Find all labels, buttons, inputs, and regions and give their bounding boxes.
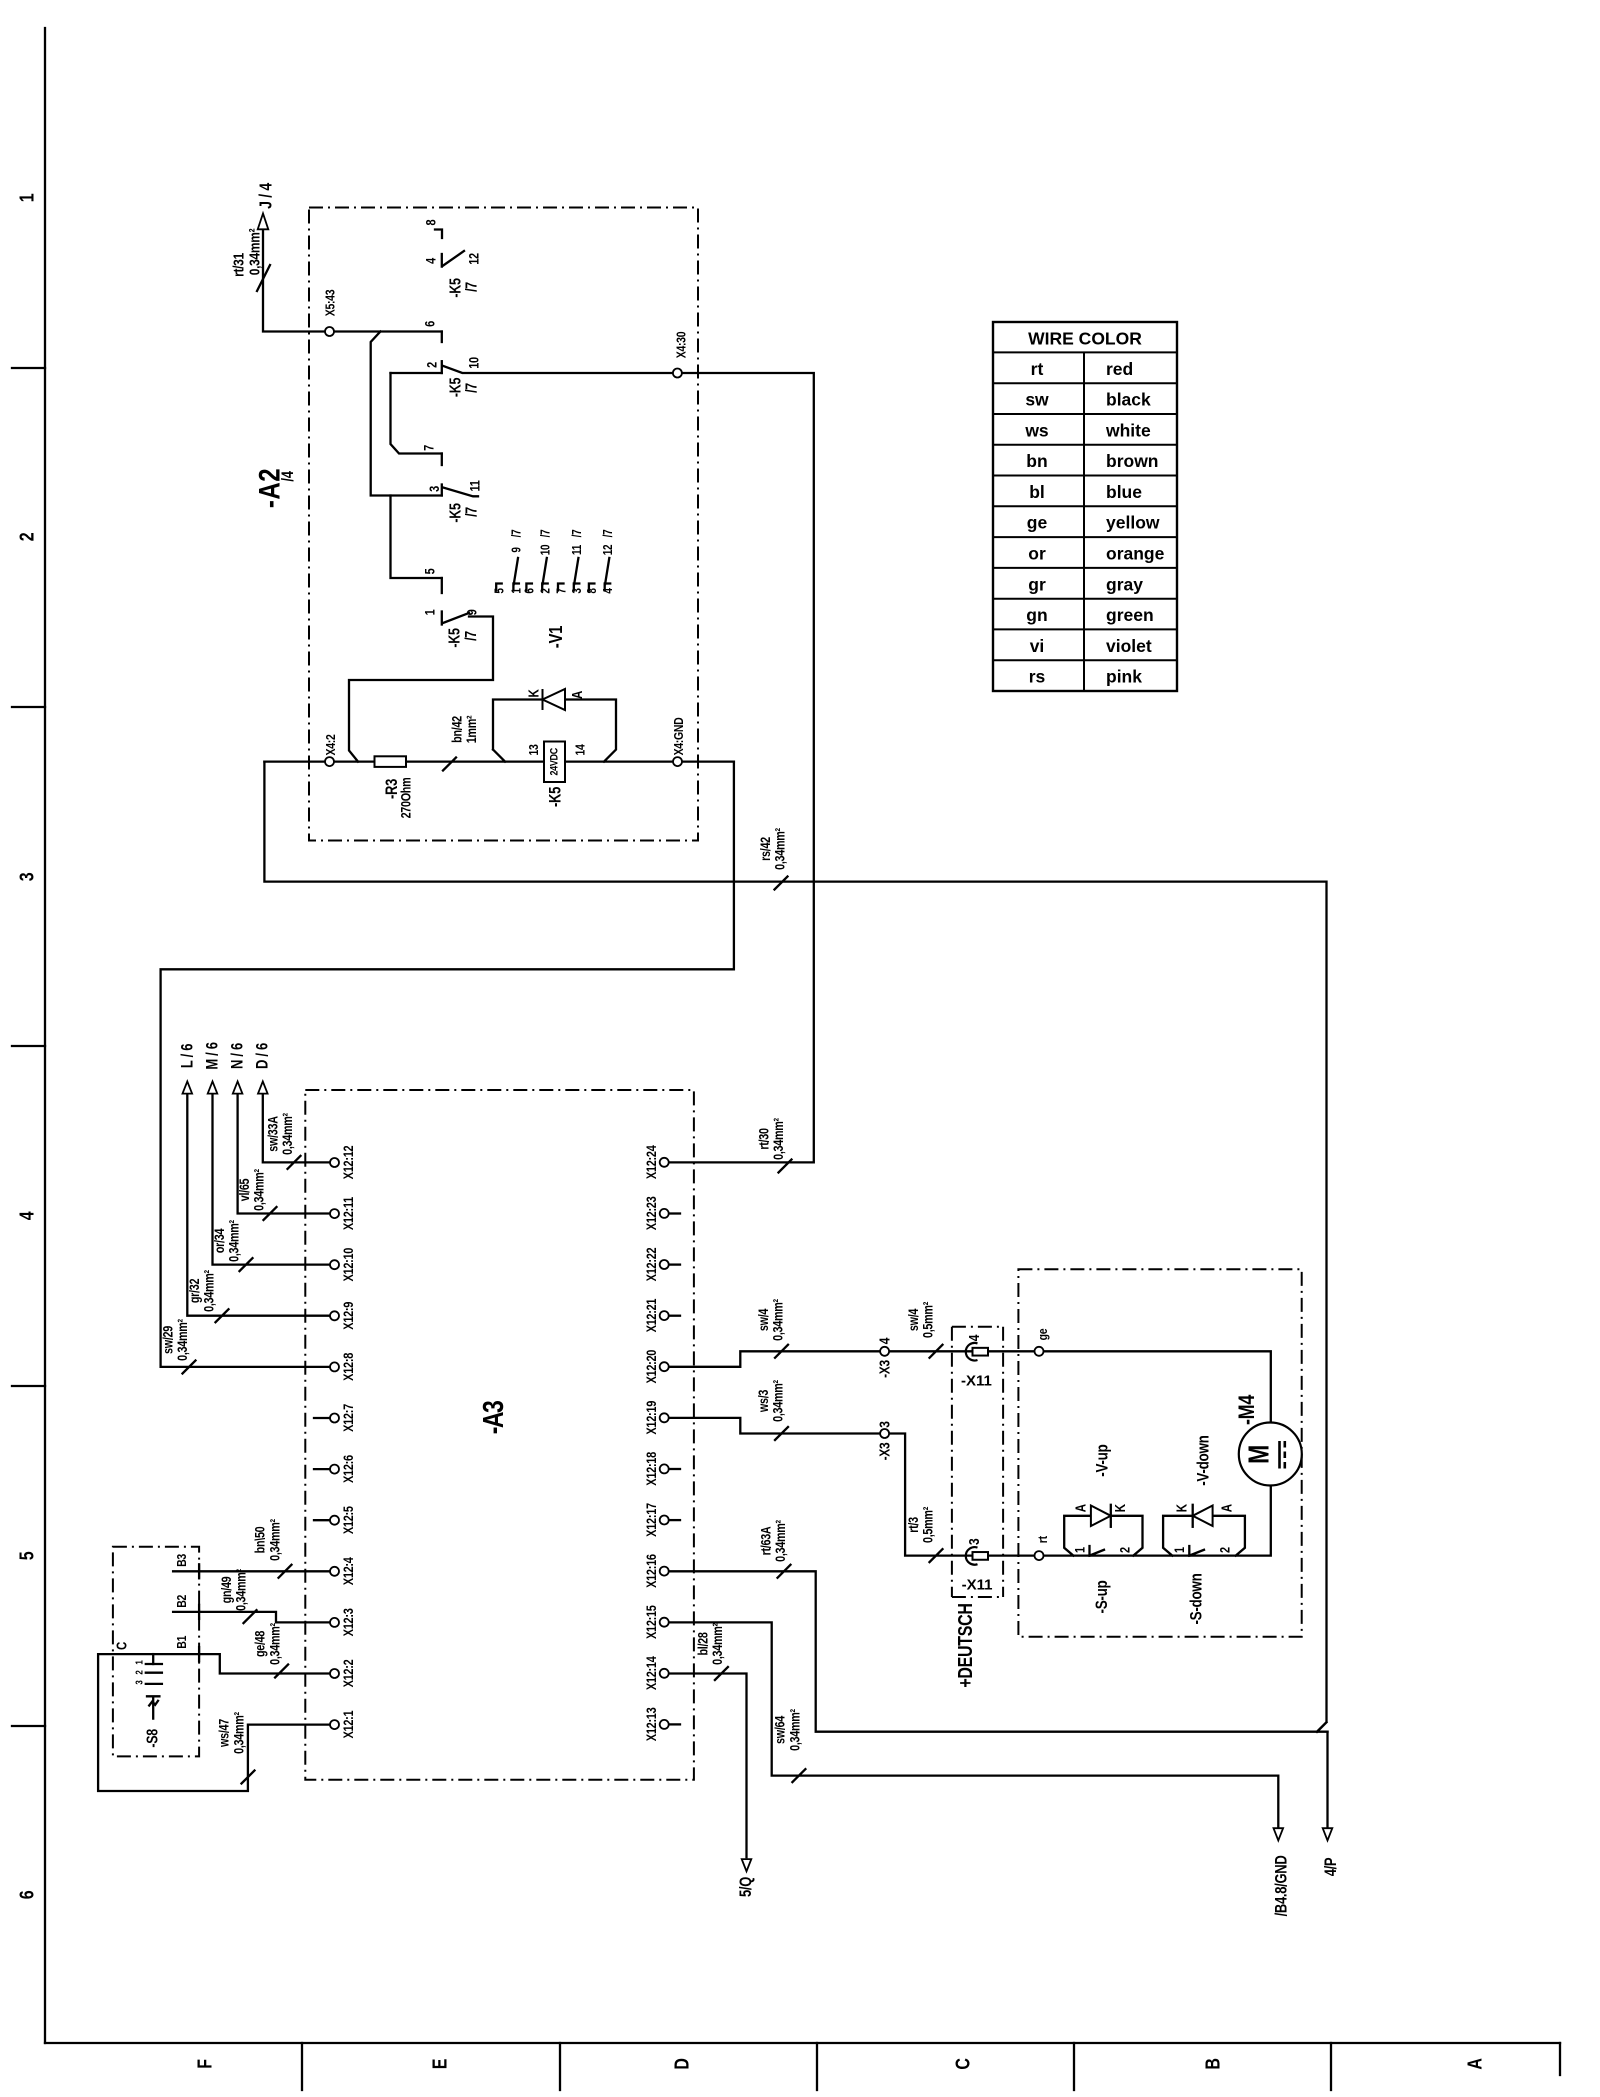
- svg-text:A: A: [1072, 1503, 1089, 1512]
- svg-text:rs/42: rs/42: [758, 837, 773, 861]
- svg-text:X12:17: X12:17: [644, 1503, 659, 1537]
- svg-text:B3: B3: [174, 1553, 189, 1566]
- svg-text:0,34mm²: 0,34mm²: [770, 1299, 785, 1341]
- svg-text:N / 6: N / 6: [229, 1043, 247, 1069]
- svg-text:1: 1: [1072, 1547, 1087, 1553]
- svg-text:2: 2: [16, 532, 38, 541]
- svg-text:8: 8: [423, 219, 438, 225]
- svg-text:X12:3: X12:3: [341, 1608, 356, 1636]
- svg-text:/7: /7: [571, 530, 584, 538]
- svg-text:0,34mm²: 0,34mm²: [267, 1519, 282, 1561]
- svg-text:X12:15: X12:15: [644, 1605, 659, 1639]
- svg-text:K: K: [525, 689, 542, 698]
- svg-text:0,34mm²: 0,34mm²: [770, 1380, 785, 1422]
- svg-text:X12:14: X12:14: [644, 1656, 659, 1690]
- svg-text:270Ohm: 270Ohm: [398, 777, 413, 818]
- svg-text:rt/63A: rt/63A: [758, 1526, 773, 1555]
- svg-text:3: 3: [571, 588, 584, 593]
- svg-text:0,34mm²: 0,34mm²: [267, 1623, 282, 1665]
- svg-text:0,34mm²: 0,34mm²: [201, 1270, 216, 1312]
- svg-text:/7: /7: [462, 282, 480, 292]
- svg-text:/7: /7: [602, 530, 615, 538]
- svg-text:4: 4: [16, 1211, 38, 1220]
- svg-text:X12:4: X12:4: [341, 1557, 356, 1585]
- svg-text:0,34mm²: 0,34mm²: [773, 1520, 788, 1562]
- svg-text:-V1: -V1: [546, 626, 567, 648]
- svg-text:F: F: [194, 2059, 216, 2069]
- svg-text:/7: /7: [540, 530, 553, 538]
- svg-text:X12:20: X12:20: [644, 1350, 659, 1384]
- svg-text:sw/4: sw/4: [756, 1308, 771, 1331]
- svg-text:1mm²: 1mm²: [464, 715, 479, 743]
- svg-text:X12:10: X12:10: [341, 1248, 356, 1282]
- svg-text:brown: brown: [1106, 451, 1159, 471]
- svg-text:bl: bl: [1029, 482, 1045, 502]
- svg-text:vi: vi: [1030, 636, 1045, 656]
- svg-text:blue: blue: [1106, 482, 1142, 502]
- svg-text:6: 6: [16, 1890, 38, 1899]
- svg-text:ge/48: ge/48: [253, 1630, 268, 1657]
- svg-text:A: A: [569, 690, 586, 699]
- svg-text:2: 2: [540, 588, 553, 593]
- svg-text:1: 1: [16, 193, 38, 202]
- svg-text:10: 10: [540, 545, 553, 556]
- svg-text:X12:5: X12:5: [341, 1506, 356, 1534]
- svg-text:white: white: [1105, 420, 1151, 440]
- svg-text:rt: rt: [1031, 359, 1044, 379]
- svg-text:bl/28: bl/28: [695, 1632, 710, 1656]
- svg-text:X12:2: X12:2: [341, 1659, 356, 1687]
- svg-text:gn: gn: [1026, 605, 1047, 625]
- svg-text:1: 1: [511, 588, 524, 593]
- svg-text:X4:GND: X4:GND: [671, 717, 686, 756]
- svg-text:-M4: -M4: [1235, 1394, 1259, 1425]
- svg-text:/B4.8/GND: /B4.8/GND: [1273, 1856, 1291, 1917]
- svg-text:ws/47: ws/47: [216, 1719, 231, 1748]
- svg-text:pink: pink: [1106, 667, 1142, 687]
- svg-text:1: 1: [133, 1660, 144, 1664]
- svg-text:/7: /7: [511, 530, 524, 538]
- svg-text:0,34mm²: 0,34mm²: [280, 1113, 295, 1155]
- svg-text:3: 3: [427, 486, 442, 492]
- svg-text:-S-down: -S-down: [1187, 1573, 1206, 1624]
- svg-text:9: 9: [511, 547, 524, 552]
- svg-text:12: 12: [466, 253, 481, 265]
- svg-text:K: K: [1112, 1503, 1129, 1512]
- svg-text:3: 3: [966, 1538, 983, 1545]
- svg-text:4: 4: [423, 258, 438, 264]
- svg-text:0,34mm²: 0,34mm²: [771, 1118, 786, 1160]
- svg-text:-S-up: -S-up: [1093, 1581, 1112, 1614]
- svg-text:gn/49: gn/49: [219, 1576, 234, 1603]
- svg-text:black: black: [1106, 390, 1151, 410]
- svg-text:0,34mm²: 0,34mm²: [710, 1623, 725, 1665]
- svg-text:5: 5: [422, 568, 437, 574]
- svg-text:4/P: 4/P: [1323, 1857, 1341, 1876]
- svg-text:6: 6: [524, 588, 537, 593]
- svg-text:13: 13: [526, 744, 541, 756]
- svg-text:D: D: [671, 2058, 693, 2069]
- svg-text:X12:16: X12:16: [644, 1554, 659, 1588]
- svg-text:0,34mm²: 0,34mm²: [226, 1220, 241, 1262]
- svg-text:/4: /4: [280, 470, 298, 481]
- svg-text:sw/33A: sw/33A: [266, 1116, 281, 1152]
- svg-text:E: E: [429, 2059, 451, 2070]
- svg-text:X12:23: X12:23: [644, 1196, 659, 1230]
- svg-text:or: or: [1028, 543, 1046, 563]
- svg-text:B: B: [1202, 2058, 1224, 2069]
- svg-text:rt: rt: [1035, 1536, 1050, 1543]
- svg-text:14: 14: [572, 744, 587, 756]
- svg-text:/7: /7: [462, 507, 480, 517]
- svg-text:B2: B2: [174, 1594, 189, 1607]
- svg-text:B1: B1: [174, 1635, 189, 1648]
- svg-text:sw: sw: [1025, 390, 1049, 410]
- svg-text:5/Q: 5/Q: [738, 1877, 756, 1897]
- svg-text:4: 4: [876, 1337, 893, 1344]
- svg-text:12: 12: [602, 545, 615, 556]
- svg-text:X12:12: X12:12: [341, 1145, 356, 1179]
- svg-text:orange: orange: [1106, 543, 1165, 563]
- svg-text:or/34: or/34: [212, 1228, 227, 1253]
- svg-text:-A3: -A3: [476, 1401, 509, 1435]
- svg-text:C: C: [113, 1641, 130, 1650]
- svg-text:7: 7: [421, 445, 436, 451]
- svg-text:ws: ws: [1024, 420, 1049, 440]
- svg-text:-X3: -X3: [876, 1442, 893, 1460]
- svg-text:24VDC: 24VDC: [549, 747, 561, 775]
- svg-text:L / 6: L / 6: [179, 1044, 197, 1068]
- svg-text:2: 2: [1217, 1547, 1232, 1553]
- svg-text:-X11: -X11: [962, 1577, 993, 1594]
- svg-text:0,34mm²: 0,34mm²: [252, 1169, 267, 1211]
- svg-text:0,5mm²: 0,5mm²: [920, 1507, 935, 1543]
- svg-text:sw/29: sw/29: [161, 1326, 176, 1354]
- svg-text:+DEUTSCH: +DEUTSCH: [955, 1603, 977, 1687]
- svg-text:2: 2: [424, 362, 439, 368]
- svg-text:0,34mm²: 0,34mm²: [175, 1319, 190, 1361]
- svg-text:-V-down: -V-down: [1194, 1435, 1213, 1485]
- svg-text:3: 3: [16, 872, 38, 881]
- svg-text:M / 6: M / 6: [204, 1042, 222, 1070]
- svg-text:A: A: [1218, 1503, 1235, 1512]
- svg-text:C: C: [952, 2058, 974, 2069]
- svg-text:bn\50: bn\50: [253, 1526, 268, 1553]
- svg-text:X12:8: X12:8: [341, 1353, 356, 1381]
- svg-text:rt/31: rt/31: [230, 252, 247, 277]
- svg-text:8: 8: [586, 588, 599, 593]
- svg-text:-V-up: -V-up: [1093, 1444, 1112, 1476]
- svg-text:sw/4: sw/4: [906, 1308, 921, 1331]
- svg-text:gray: gray: [1106, 574, 1143, 594]
- svg-text:3: 3: [133, 1680, 144, 1684]
- svg-text:11: 11: [467, 480, 482, 491]
- svg-text:-K5: -K5: [547, 787, 565, 807]
- svg-text:/7: /7: [462, 631, 480, 641]
- svg-text:X12:7: X12:7: [341, 1404, 356, 1432]
- svg-text:5: 5: [16, 1551, 38, 1560]
- svg-text:violet: violet: [1106, 636, 1152, 656]
- svg-text:vl/65: vl/65: [237, 1178, 252, 1201]
- svg-text:0,34mm²: 0,34mm²: [231, 1712, 246, 1754]
- svg-text:K: K: [1173, 1503, 1190, 1512]
- svg-text:rs: rs: [1029, 667, 1046, 687]
- svg-text:X12:11: X12:11: [341, 1197, 356, 1230]
- svg-text:M: M: [1242, 1445, 1275, 1464]
- svg-text:ws/3: ws/3: [756, 1389, 771, 1413]
- svg-text:10: 10: [466, 357, 481, 369]
- svg-text:9: 9: [464, 609, 479, 615]
- svg-text:X12:22: X12:22: [644, 1247, 659, 1281]
- svg-text:X5:43: X5:43: [322, 289, 337, 316]
- svg-text:yellow: yellow: [1106, 513, 1160, 533]
- svg-text:-S8: -S8: [143, 1729, 161, 1748]
- svg-text:2: 2: [133, 1670, 144, 1674]
- svg-text:7: 7: [555, 588, 568, 593]
- svg-text:0,34mm²: 0,34mm²: [246, 228, 263, 275]
- svg-text:0,5mm²: 0,5mm²: [920, 1302, 935, 1338]
- svg-text:5: 5: [494, 588, 507, 593]
- svg-text:bn: bn: [1026, 451, 1047, 471]
- svg-text:4: 4: [966, 1334, 983, 1341]
- svg-text:X12:6: X12:6: [341, 1455, 356, 1483]
- svg-text:A: A: [1464, 2058, 1486, 2069]
- svg-text:3: 3: [876, 1421, 893, 1428]
- svg-text:WIRE COLOR: WIRE COLOR: [1028, 329, 1142, 349]
- svg-text:4: 4: [602, 587, 615, 593]
- svg-text:X12:1: X12:1: [341, 1710, 356, 1738]
- svg-text:-X11: -X11: [961, 1373, 992, 1390]
- svg-text:X12:21: X12:21: [644, 1298, 659, 1332]
- svg-text:red: red: [1106, 359, 1133, 379]
- svg-text:11: 11: [571, 545, 584, 555]
- svg-text:gr/32: gr/32: [187, 1278, 202, 1303]
- svg-text:X12:9: X12:9: [341, 1302, 356, 1330]
- svg-text:gr: gr: [1028, 574, 1046, 594]
- svg-text:0,34mm²: 0,34mm²: [233, 1569, 248, 1611]
- svg-text:X12:18: X12:18: [644, 1452, 659, 1486]
- svg-text:sw/64: sw/64: [772, 1716, 787, 1744]
- svg-text:X12:13: X12:13: [644, 1707, 659, 1741]
- svg-text:/7: /7: [462, 383, 480, 393]
- svg-text:green: green: [1106, 605, 1154, 625]
- svg-text:X4:30: X4:30: [673, 331, 688, 358]
- svg-text:0,34mm²: 0,34mm²: [787, 1709, 802, 1751]
- svg-text:ge: ge: [1027, 513, 1048, 533]
- svg-text:6: 6: [422, 321, 437, 327]
- svg-text:X12:19: X12:19: [644, 1401, 659, 1435]
- svg-text:X4:2: X4:2: [323, 734, 338, 756]
- svg-text:bn/42: bn/42: [449, 716, 464, 743]
- svg-text:0,34mm²: 0,34mm²: [772, 828, 787, 870]
- svg-text:-K5: -K5: [445, 628, 463, 648]
- svg-text:ge: ge: [1035, 1328, 1050, 1340]
- svg-text:-X3: -X3: [876, 1359, 893, 1377]
- svg-text:rt/30: rt/30: [756, 1128, 771, 1150]
- svg-text:J / 4: J / 4: [257, 183, 276, 209]
- svg-text:rt/3: rt/3: [906, 1517, 921, 1533]
- svg-text:2: 2: [1118, 1547, 1133, 1553]
- svg-text:1: 1: [422, 609, 437, 615]
- svg-text:D / 6: D / 6: [254, 1043, 272, 1069]
- svg-text:X12:24: X12:24: [644, 1145, 659, 1179]
- svg-text:1: 1: [1172, 1547, 1187, 1553]
